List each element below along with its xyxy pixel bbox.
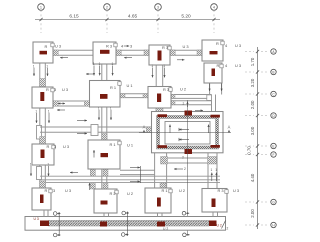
svg-text:A: A <box>143 124 146 129</box>
svg-text:1: 1 <box>151 64 153 68</box>
harrow row3.5 b <box>174 168 183 170</box>
shaft outer wall <box>152 112 224 153</box>
column footing Q2 <box>94 189 117 213</box>
svg-text:1: 1 <box>215 168 217 172</box>
wire beam B2 to shaft <box>120 169 155 171</box>
svg-text:R: R <box>47 144 50 149</box>
grid bubble 1 <box>38 4 45 11</box>
harrow row1 a <box>60 57 68 59</box>
junction block corridor a <box>170 95 175 99</box>
shaft inner wall <box>165 122 210 145</box>
svg-text:1: 1 <box>46 64 48 68</box>
column footing M4 <box>204 63 222 83</box>
shaft red corner TL <box>158 114 168 117</box>
right grid bubble H <box>271 222 276 227</box>
junction block right of T2 <box>116 50 121 56</box>
svg-text:U 2: U 2 <box>217 223 222 227</box>
svg-text:U 3: U 3 <box>235 63 241 68</box>
svg-text:U 3: U 3 <box>55 44 61 49</box>
svg-text:0.70: 0.70 <box>247 146 252 155</box>
svg-text:3: 3 <box>53 188 55 193</box>
wire beam row3.5 long <box>40 175 220 177</box>
wire beam col3 vertical <box>155 65 157 87</box>
svg-text:U 3: U 3 <box>62 87 68 92</box>
svg-text:U 3: U 3 <box>63 144 69 149</box>
arrow Q2 up <box>89 183 91 190</box>
svg-text:U 3: U 3 <box>233 188 239 193</box>
arrow pair col2 b <box>98 110 100 120</box>
svg-text:R 3: R 3 <box>163 87 169 92</box>
junction block near shaft row2.5 <box>146 127 151 132</box>
junction block below M3 <box>156 108 163 111</box>
svg-text:U 1: U 1 <box>127 143 133 148</box>
svg-text:U 3: U 3 <box>235 43 241 48</box>
svg-text:1: 1 <box>33 64 35 68</box>
junction block under shaft R <box>208 157 217 165</box>
svg-text:U 3: U 3 <box>34 217 39 221</box>
wire beam row2.5 long <box>40 126 152 128</box>
strip hatch band <box>49 221 210 227</box>
column footing T2 <box>93 42 116 64</box>
right grid bubble F <box>271 152 276 157</box>
column Q4 red <box>212 199 216 208</box>
column footing M2 <box>90 81 121 108</box>
junction block above Q1 <box>40 181 46 188</box>
corridor joint rect <box>207 95 212 101</box>
column M4 red <box>212 69 216 77</box>
column T1 red <box>40 51 48 55</box>
column footing T4 <box>202 40 223 61</box>
shaft interior up arrow right <box>208 125 210 134</box>
column footing Q4 <box>202 189 227 213</box>
section flag F top <box>122 211 126 215</box>
junction block above Q2 b <box>103 184 108 190</box>
column footing Q3 <box>145 188 171 213</box>
grid bubble 3 <box>155 4 162 11</box>
column M3 red <box>157 94 161 103</box>
column M1 red <box>40 92 44 101</box>
junction block right of T1 <box>53 50 58 56</box>
joint rect row2.5 <box>91 125 98 136</box>
harrow B2-shaft a <box>130 167 140 169</box>
section flag E top <box>53 212 57 216</box>
harrow row3.5 a <box>70 172 78 174</box>
junction block above Q2 a <box>90 184 95 190</box>
svg-text:3: 3 <box>54 144 56 149</box>
column footing B2 <box>88 140 120 169</box>
column Q2 red <box>101 201 108 205</box>
harrow row1 b <box>124 57 132 59</box>
arrow pair col1 c <box>30 166 32 176</box>
svg-text:3: 3 <box>157 5 159 9</box>
column T2 red <box>100 50 110 54</box>
wire beam row2 mid <box>120 93 148 95</box>
junction block below B2 a <box>90 170 95 177</box>
arrow pair col3 a <box>152 68 154 78</box>
svg-text:R: R <box>217 63 220 68</box>
svg-text:R 1: R 1 <box>110 142 116 147</box>
right grid bubble C <box>271 91 276 96</box>
svg-text:2.00: 2.00 <box>250 100 255 109</box>
svg-text:1: 1 <box>35 109 37 113</box>
column footing M1 <box>32 87 53 108</box>
svg-text:E: E <box>272 144 274 148</box>
svg-text:2: 2 <box>182 156 184 160</box>
svg-text:R 2: R 2 <box>110 191 116 196</box>
junction block above B1 <box>40 137 46 145</box>
svg-text:3.20: 3.20 <box>250 78 255 87</box>
svg-text:1: 1 <box>163 64 165 68</box>
wire beam col1 vertical <box>39 63 41 87</box>
svg-text:1: 1 <box>48 109 50 113</box>
junction block left of T4 <box>197 50 202 56</box>
svg-text:1: 1 <box>40 5 42 9</box>
svg-text:1: 1 <box>110 106 112 110</box>
wire beam corridor lower <box>171 100 212 102</box>
right grid bubble B <box>271 69 276 74</box>
section flag D bottom <box>183 233 187 237</box>
svg-text:R 3: R 3 <box>106 44 112 49</box>
shaft red corner TR <box>211 115 220 118</box>
svg-text:3: 3 <box>54 87 56 92</box>
arrow trio col2 <box>93 66 95 76</box>
left wall stubs <box>37 126 42 140</box>
section flag E bottom <box>53 233 57 237</box>
svg-text:U 2: U 2 <box>163 227 168 231</box>
strip end diagonal <box>222 221 226 229</box>
harrow row2 c <box>195 110 203 112</box>
arrow pair col4 wall <box>209 84 211 92</box>
svg-text:1: 1 <box>99 62 101 66</box>
shaft interior arrow 1 <box>179 129 189 131</box>
column footing Q1 <box>32 188 51 210</box>
svg-text:F: F <box>273 153 275 157</box>
arrow pair col4 below shaft <box>211 173 213 182</box>
column footing T3 <box>149 45 170 65</box>
svg-text:4: 4 <box>213 5 215 9</box>
svg-text:4.65: 4.65 <box>128 13 138 19</box>
section line A-A horizontal <box>139 132 231 134</box>
marker 2 top <box>187 102 189 108</box>
junction block corridor b <box>170 101 175 105</box>
svg-text:2: 2 <box>106 5 108 9</box>
junction block above Q3 <box>160 183 166 188</box>
svg-text:2.00: 2.00 <box>250 209 255 218</box>
svg-text:1: 1 <box>211 168 213 172</box>
column B2 red <box>101 153 109 157</box>
strip red 4 <box>209 221 217 227</box>
right extension dashes <box>245 51 254 53</box>
harrow B2-shaft b <box>130 181 140 183</box>
svg-text:R 3: R 3 <box>218 188 224 193</box>
dbl arrow M1-M2 beam <box>58 103 65 105</box>
arrow pair col1 a <box>33 68 35 76</box>
top dimension line <box>35 19 220 21</box>
svg-text:U 3: U 3 <box>183 44 189 49</box>
section flag D top <box>182 211 186 215</box>
shaft red corner BR <box>211 145 220 148</box>
svg-text:R: R <box>45 44 48 49</box>
column B1 red <box>41 150 45 159</box>
svg-text:2: 2 <box>183 102 185 106</box>
junction block left of M2 <box>84 101 89 107</box>
junction block under shaft L <box>161 157 168 165</box>
grid line drops <box>40 10 42 33</box>
svg-text:3: 3 <box>130 44 132 49</box>
wire beam col4 wide wall <box>209 83 211 95</box>
svg-text:2: 2 <box>227 227 229 231</box>
strip red 2 <box>100 222 107 227</box>
wire beam col4 to shaft <box>211 95 213 112</box>
column M2 red <box>100 94 108 99</box>
svg-text:1: 1 <box>112 62 114 66</box>
svg-text:4.40: 4.40 <box>250 173 255 182</box>
wire beam row2 left <box>53 100 90 102</box>
column footing T1 <box>33 42 53 63</box>
shaft hatched band <box>157 116 219 150</box>
svg-text:U 1: U 1 <box>127 83 133 88</box>
column footing B1 <box>32 144 54 165</box>
shaft red corner BL <box>158 145 168 148</box>
junction block right of M2 <box>120 94 125 98</box>
right dimension line <box>257 47 259 229</box>
svg-text:R: R <box>46 87 49 92</box>
svg-text:R: R <box>45 188 48 193</box>
B2 interior arrow <box>93 150 95 158</box>
grid bubble 4 <box>211 4 218 11</box>
svg-text:1.70: 1.70 <box>250 57 255 66</box>
svg-text:R 1: R 1 <box>110 85 116 90</box>
strip red 3 <box>157 222 165 227</box>
wire beam row1 <box>53 49 93 51</box>
column feet <box>43 210 45 217</box>
svg-text:U 2: U 2 <box>179 188 185 193</box>
strip red 1 <box>40 221 49 227</box>
svg-text:U 2: U 2 <box>180 86 186 91</box>
harrow row1 c <box>177 59 185 61</box>
wire beam col3 below shaft <box>154 153 156 188</box>
svg-text:B: B <box>272 70 274 74</box>
harrow row2.5 a <box>77 120 87 122</box>
right grid bubble E <box>271 143 276 148</box>
junction block right of T3 <box>170 50 175 56</box>
svg-text:1: 1 <box>98 106 100 110</box>
column T3 red <box>158 51 162 61</box>
wire beam corridor upper <box>171 94 212 96</box>
right grid bubble G <box>271 199 276 204</box>
column Q1 red <box>40 195 44 204</box>
arrow pair col1 b <box>36 113 38 123</box>
svg-text:R 3: R 3 <box>162 45 168 50</box>
shaft interior up arrow left <box>169 125 171 134</box>
column Q3 red <box>157 198 161 207</box>
junction block left of M3 <box>143 94 148 98</box>
section flag F bottom <box>121 233 125 237</box>
svg-text:R 1: R 1 <box>162 188 168 193</box>
shaft interior arrow 2 <box>179 139 189 141</box>
junction block above B2 <box>102 134 107 141</box>
grid bubble 2 <box>104 4 111 11</box>
junction block left of T3 <box>144 50 149 56</box>
svg-text:U 2: U 2 <box>127 191 133 196</box>
wire beam col4 below shaft <box>207 153 209 189</box>
shaft red mid top <box>185 111 193 116</box>
svg-text:A: A <box>228 124 231 129</box>
column T4 red <box>210 51 218 54</box>
harrow row2.5 b <box>77 133 87 135</box>
junction block above M1 <box>40 79 46 87</box>
svg-text:3.00: 3.00 <box>250 126 255 135</box>
harrow row2 a <box>57 109 65 111</box>
junction block below B2 b <box>103 170 108 177</box>
harrow col2 <box>86 73 94 75</box>
ground beam strip <box>25 217 226 231</box>
section line D-D vertical <box>187 100 189 236</box>
wire beam col2 vertical <box>101 64 103 81</box>
right grid bubble A <box>271 49 276 54</box>
svg-text:U 3: U 3 <box>65 188 71 193</box>
wire beam under shaft <box>161 157 218 159</box>
svg-text:2: 2 <box>184 167 186 171</box>
svg-text:1: 1 <box>30 162 32 166</box>
svg-text:R: R <box>216 41 219 46</box>
junction block right of M1 <box>53 101 58 107</box>
column footing M3 <box>148 87 171 109</box>
shaft red mid bottom <box>185 149 193 154</box>
right grid bubble D <box>271 113 276 118</box>
svg-text:5.20: 5.20 <box>181 13 191 19</box>
svg-text:6.15: 6.15 <box>69 13 79 19</box>
svg-text:1: 1 <box>47 162 49 166</box>
svg-text:1: 1 <box>93 62 95 66</box>
B2-shaft vert line <box>139 166 141 183</box>
